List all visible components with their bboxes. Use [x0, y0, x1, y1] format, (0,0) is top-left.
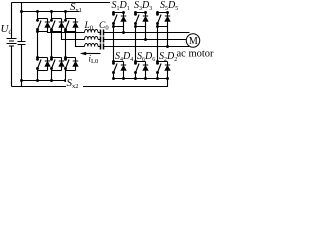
- current arrow iL0: [85, 53, 101, 55]
- wire S3 to phase b: [145, 27, 147, 40]
- wire dc- rail left bridge: [22, 80, 80, 82]
- switch Sx1 leg b (upper): [52, 12, 65, 32]
- diode D3: [143, 16, 148, 21]
- diode D1: [121, 16, 126, 21]
- label S4D4: [115, 50, 133, 61]
- switch S4: [114, 62, 127, 79]
- wire right leg a midpoint: [113, 27, 115, 62]
- label S5D5: [159, 0, 179, 10]
- switch S2: [158, 62, 171, 79]
- junction dc- rail / leg a: [36, 79, 39, 82]
- motor M (ac motor): [186, 34, 200, 48]
- junction dc+ rail / leg b: [50, 10, 53, 13]
- diode D6: [143, 65, 148, 70]
- wire S1 to phase a: [123, 27, 125, 33]
- switch S6: [136, 62, 149, 79]
- diode antiparallel leg a lower: [45, 61, 50, 66]
- wire phase c line: [76, 32, 190, 47]
- wire leg c midpoint: [65, 32, 67, 58]
- wire phase a line: [48, 32, 190, 33]
- capacitor C0 phase a: [101, 30, 104, 36]
- switch S3: [136, 13, 149, 27]
- label S3D3: [133, 0, 153, 10]
- svg-text:ac motor: ac motor: [177, 49, 215, 60]
- diode antiparallel leg a upper: [45, 22, 50, 27]
- diode D5: [165, 16, 170, 21]
- diode antiparallel leg b upper: [59, 22, 64, 27]
- wire phase b line: [62, 32, 190, 40]
- wire right leg c midpoint: [157, 27, 159, 62]
- battery Ud: [7, 3, 17, 87]
- junction cap / dc+ rail: [20, 10, 23, 13]
- junction phase c tap: [166, 45, 169, 48]
- switch Sx1 leg a (upper): [38, 12, 51, 32]
- wire right leg b midpoint: [135, 27, 137, 62]
- wire S5 to phase c: [167, 27, 169, 47]
- capacitor C0 phase c: [101, 44, 104, 50]
- diode antiparallel leg c upper: [73, 22, 78, 27]
- svg-text:M: M: [189, 36, 198, 47]
- inductor L0 phase b: [85, 37, 99, 40]
- switch Sx2 leg a (lower): [38, 58, 51, 81]
- junction dc+ rail / leg a: [36, 10, 39, 13]
- junction dc- rail / leg c: [64, 79, 67, 82]
- wire dc+ rail left bridge: [22, 11, 80, 13]
- junction cap / dc- rail: [20, 79, 23, 82]
- inductor L0 phase a: [85, 30, 99, 33]
- inductor L0 phase c: [85, 44, 99, 47]
- diode D2: [165, 65, 170, 70]
- junction dc- rail / leg b: [50, 79, 53, 82]
- switch Sx1 leg c (upper): [66, 12, 79, 32]
- switch Sx2 leg c (lower): [66, 58, 79, 81]
- capacitor Cd (dc link): [18, 3, 26, 87]
- junction phase a tap: [122, 31, 125, 34]
- label S2D2: [159, 50, 177, 61]
- label Sx2: [66, 78, 83, 89]
- diode antiparallel leg c lower: [73, 61, 78, 66]
- junction dc+ rail / leg c: [64, 10, 67, 13]
- label S6D6: [137, 50, 155, 61]
- diode antiparallel leg b lower: [59, 61, 64, 66]
- switch S5: [158, 13, 171, 27]
- diode D4: [121, 65, 126, 70]
- wire top dc bus: [12, 2, 113, 4]
- capacitor C0 phase b: [101, 37, 104, 43]
- wire leg b midpoint: [51, 32, 53, 58]
- label S1D1: [110, 0, 130, 10]
- wire dc- rail right bridge: [114, 78, 168, 80]
- junction phase b tap: [144, 38, 147, 41]
- switch Sx2 leg b (lower): [52, 58, 65, 81]
- wire leg a midpoint: [37, 32, 39, 58]
- wire bottom dc bus: [12, 79, 168, 87]
- switch S1: [114, 13, 127, 27]
